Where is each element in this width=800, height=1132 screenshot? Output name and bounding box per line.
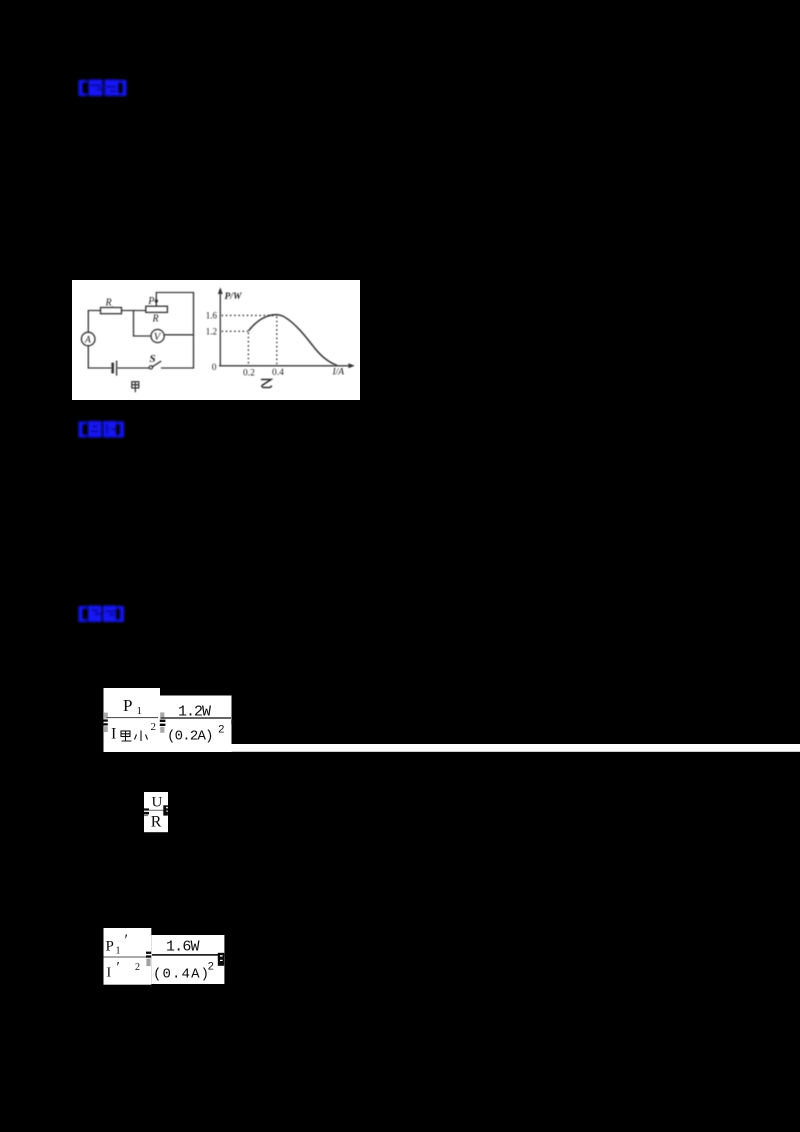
svg-text:2: 2 — [208, 962, 215, 974]
switch pivot — [149, 366, 152, 369]
heading 2 blue label 【分析】 — [79, 421, 125, 438]
formula 2 fraction U/R — [149, 795, 169, 831]
battery long plate — [116, 361, 117, 376]
heading 1 blue label 【考点】 — [79, 80, 127, 97]
right black block formula 2 — [163, 805, 168, 815]
formula 1 white box right — [160, 696, 232, 753]
svg-text:I: I — [107, 966, 112, 981]
wire slider to top rail — [156, 293, 193, 301]
figure white panel — [72, 280, 360, 400]
formula 3 fraction P1'/I'^2 — [104, 932, 147, 981]
switch S lever — [152, 361, 161, 367]
svg-text:S: S — [150, 353, 156, 365]
wire junction to voltmeter — [134, 335, 152, 337]
wire left vertical upper — [87, 311, 89, 333]
equals sign clipped at left edge of formula 1 — [104, 713, 108, 733]
svg-text:P: P — [106, 939, 114, 955]
white underline strip — [231, 744, 800, 752]
svg-text:A: A — [84, 336, 91, 346]
svg-text:1.6: 1.6 — [206, 311, 218, 321]
rheostat R body — [146, 306, 168, 312]
formula 2 white box — [144, 792, 168, 832]
svg-text:1: 1 — [137, 705, 143, 717]
wire voltmeter to right rail — [164, 334, 193, 336]
svg-text:P: P — [147, 296, 154, 307]
wire bottom rail mid — [118, 367, 150, 369]
battery short plate — [111, 363, 114, 374]
svg-text:2: 2 — [135, 962, 140, 973]
svg-text:I: I — [111, 726, 116, 743]
svg-text:R: R — [151, 814, 162, 831]
equals sign 3 — [146, 952, 151, 967]
right tick of formula1 — [231, 720, 233, 725]
svg-text:0: 0 — [212, 363, 217, 373]
svg-text:I/A: I/A — [332, 368, 345, 378]
svg-text:(0.2A): (0.2A) — [167, 729, 214, 745]
formula 3 white box left — [104, 928, 152, 985]
svg-text:U: U — [152, 795, 163, 811]
wire resistor to rheostat — [122, 310, 146, 312]
P-I curve — [248, 315, 337, 366]
formula 1 fraction 1.2W/(0.2A)^2 — [161, 704, 232, 745]
wire left vertical lower — [87, 346, 89, 368]
svg-text:0.4: 0.4 — [272, 368, 284, 378]
right black block formula 3 — [218, 953, 224, 966]
svg-text:(0.4A): (0.4A) — [153, 967, 209, 983]
equals sign 1 — [160, 712, 166, 732]
svg-text:1: 1 — [116, 946, 121, 957]
node junction vertical wire — [133, 311, 135, 337]
resistor R0 body — [101, 308, 122, 314]
svg-text:1.6W: 1.6W — [166, 939, 200, 956]
svg-text:1.2: 1.2 — [206, 326, 217, 336]
wire bottom rail right — [162, 367, 194, 369]
svg-text:′: ′ — [117, 960, 120, 976]
formula 1 white box left — [104, 688, 161, 752]
svg-text:2: 2 — [151, 721, 157, 733]
rheostat slider stem — [155, 302, 157, 307]
svg-text:P: P — [123, 696, 132, 715]
svg-text:R: R — [152, 314, 159, 325]
subscript 最小 glyphs — [121, 731, 148, 742]
wire bottom rail left — [88, 367, 111, 369]
y-axis arrowhead — [218, 287, 223, 294]
dotted guide lines — [222, 315, 277, 365]
heading 3 blue label 【解答】 — [79, 606, 125, 623]
svg-text:P/W: P/W — [225, 292, 242, 302]
wire top-left to resistor — [88, 310, 100, 312]
rheostat slider knob P — [155, 299, 158, 302]
graph x-axis — [219, 365, 352, 367]
formula 1 fraction P1 / I最小^2 — [107, 696, 159, 743]
caption 乙 — [261, 380, 272, 388]
formula 3 white box right — [151, 935, 224, 984]
x-axis arrowhead — [348, 363, 354, 368]
ammeter A circle — [81, 332, 95, 346]
graph y-axis — [219, 290, 352, 366]
svg-text:′: ′ — [125, 932, 129, 949]
equals sign 2 — [144, 808, 149, 816]
wire right vertical rail — [193, 293, 195, 369]
svg-text:0.2: 0.2 — [243, 369, 255, 379]
caption 甲 — [132, 382, 139, 393]
voltmeter V circle — [151, 329, 164, 342]
svg-text:2: 2 — [218, 725, 225, 737]
formula 3 fraction 1.6W/(0.4A)^2 — [152, 939, 224, 983]
